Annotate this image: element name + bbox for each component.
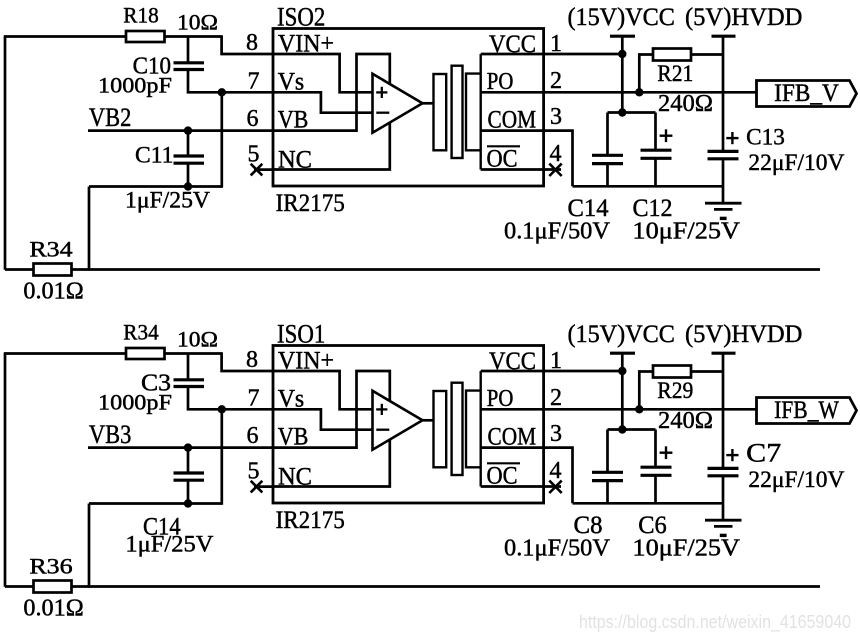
wire C11 bottom branch ISO2: [187, 163, 190, 186]
resistor R34 (10Ω input): [126, 348, 165, 359]
label 0.1μF/50V: [504, 536, 611, 562]
wire op-amp output ISO1: [423, 419, 435, 422]
svg-text:C7: C7: [746, 439, 781, 468]
svg-text:IR2175: IR2175: [276, 190, 345, 217]
wire R34 row left ISO1: [4, 352, 126, 355]
svg-text:1μF/25V: 1μF/25V: [125, 531, 213, 556]
power VCC rail ISO2: [610, 36, 635, 112]
isolation barrier bar ISO2: [452, 66, 463, 158]
label C7: [746, 439, 781, 468]
watermark: [579, 611, 851, 633]
wire pin 4 stub ISO1: [481, 485, 561, 488]
wire to pin 8 ISO1: [222, 352, 274, 371]
wire decoupling branch ISO2: [608, 111, 656, 114]
op-amp UISO2 triangle: [373, 74, 423, 133]
wire rail to shunt ISO1: [88, 504, 91, 588]
svg-text:IR2175: IR2175: [276, 507, 345, 534]
capacitor C8 (0.1μF/50V): [592, 472, 623, 480]
pin VIN+ label ISO1: [278, 348, 334, 375]
label (15V)VCC ISO2: [567, 4, 675, 31]
wire pin 2 row (PO) ISO1: [481, 408, 757, 411]
node VB3 junction ISO1: [184, 443, 192, 451]
svg-text:10Ω: 10Ω: [177, 10, 218, 35]
label C10: [133, 54, 171, 80]
label VB2: [89, 103, 131, 132]
label 1000pF: [98, 73, 172, 98]
label 10μF/25V: [632, 219, 740, 245]
svg-text:8: 8: [246, 347, 258, 373]
label R34: [29, 237, 72, 262]
wire to pin 8 ISO2: [222, 35, 274, 54]
wire C11 top branch ISO2: [187, 131, 190, 156]
svg-text:7: 7: [248, 69, 260, 95]
svg-text:4: 4: [550, 458, 562, 484]
wire C7 bottom ISO1: [722, 476, 725, 520]
pin 6 label ISO2: [247, 106, 259, 132]
wire C6 top ISO1: [654, 430, 657, 468]
wire C8 top ISO1: [606, 430, 609, 473]
svg-text:(15V)VCC: (15V)VCC: [567, 4, 675, 31]
capacitor C6 (10μF/25V): [641, 467, 672, 475]
wire R34 row right ISO1: [165, 352, 222, 355]
wire C14 top branch ISO1: [187, 448, 190, 473]
label R36: [29, 554, 72, 579]
pin 5 label ISO2: [248, 142, 260, 168]
wire NC stub ISO1: [254, 485, 274, 488]
svg-text:3: 3: [550, 421, 562, 447]
pin NC label ISO1: [278, 464, 312, 491]
label 10μF/25V: [632, 536, 740, 562]
pin Vs label ISO2: [278, 69, 305, 96]
svg-text:0.1μF/50V: 0.1μF/50V: [504, 219, 611, 245]
svg-text:VB2: VB2: [89, 103, 131, 132]
wire C14 bottom branch ISO1: [187, 480, 190, 503]
node R29 PO junction ISO1: [635, 405, 643, 413]
wire R29 right leg ISO1: [691, 370, 723, 373]
wire decoupling branch ISO1: [608, 428, 656, 431]
label R29: [657, 378, 693, 403]
label IR2175: [276, 507, 345, 534]
svg-text:7: 7: [248, 386, 260, 412]
label 240Ω: [658, 408, 713, 434]
wire pin 2 row (PO) ISO2: [481, 91, 757, 94]
label C6: [638, 512, 667, 539]
pin 1 label ISO2: [550, 31, 562, 57]
svg-text:0.01Ω: 0.01Ω: [23, 596, 83, 622]
wire C13 bottom ISO2: [722, 159, 725, 203]
wire Vs internal ISO1: [274, 409, 373, 429]
pin 1 label ISO1: [550, 348, 562, 374]
label 22μF/10V: [748, 467, 844, 492]
svg-text:1000pF: 1000pF: [98, 390, 172, 415]
ground ISO2: [705, 203, 742, 218]
svg-text:10Ω: 10Ω: [177, 327, 218, 352]
wire shunt row left ISO2: [5, 268, 34, 271]
pin VCC label ISO1: [489, 348, 536, 375]
svg-text:10μF/25V: 10μF/25V: [632, 536, 740, 562]
label R34: [123, 320, 158, 345]
label R21: [657, 61, 693, 86]
wire Vs stub ISO1: [222, 408, 274, 411]
power HVDD rail ISO1: [712, 353, 736, 468]
svg-text:R29: R29: [657, 378, 693, 403]
wire R18 row left ISO2: [4, 35, 126, 38]
wire C14 bottom ISO2: [606, 164, 609, 187]
isolation block plate B ISO2: [466, 74, 481, 151]
label C12: [633, 195, 673, 222]
svg-text:2: 2: [550, 68, 562, 94]
label C13: [746, 125, 785, 150]
label 0.01Ω: [23, 596, 83, 622]
wire C10 to Vs ISO2: [188, 70, 222, 93]
wire pin 1 row ISO1: [481, 370, 623, 373]
pin OC label ISO1: [487, 463, 521, 490]
wire pin 4 stub ISO2: [481, 168, 561, 171]
svg-text:2: 2: [550, 385, 562, 411]
wire VIN+ internal ISO2: [274, 54, 373, 92]
wire VB2 row ISO2: [88, 129, 274, 132]
capacitor C7 (22μF/10V): [708, 468, 739, 475]
node VB2 junction ISO2: [184, 126, 192, 134]
wire ground rail ISO2: [573, 185, 724, 188]
label R18: [123, 3, 158, 28]
isolation block plate B ISO1: [466, 391, 481, 468]
label (5V)HVDD ISO2: [685, 4, 803, 31]
wire C3 top branch ISO1: [187, 354, 190, 380]
node VCC pin1 ISO1: [618, 367, 626, 375]
svg-text:ISO2: ISO2: [277, 2, 325, 31]
svg-text:IFB_W: IFB_W: [774, 397, 839, 424]
svg-text:4: 4: [550, 141, 562, 167]
wire shunt row long ISO2: [72, 268, 821, 271]
wire shunt row long ISO1: [72, 585, 821, 588]
svg-text:1μF/25V: 1μF/25V: [125, 188, 210, 213]
node VCC caps ISO1: [618, 425, 626, 433]
wire NC internal ISO2: [274, 122, 390, 170]
pin VIN+ label ISO2: [278, 31, 334, 58]
wire Vs stub ISO2: [222, 91, 274, 94]
wire C14 top ISO2: [606, 113, 609, 156]
wire C10 top branch ISO2: [187, 37, 190, 63]
pin PO label ISO1: [487, 386, 514, 412]
node R21 PO junction ISO2: [635, 88, 643, 96]
wire pin 1 row ISO2: [481, 53, 623, 56]
wire VIN+ internal ISO1: [274, 371, 373, 409]
svg-text:ISO1: ISO1: [277, 319, 325, 348]
label 10Ω: [177, 327, 218, 352]
pin PO label ISO2: [487, 69, 514, 95]
no-connect X pin 5 ISO2: [251, 164, 263, 176]
label IR2175: [276, 190, 345, 217]
label C14: [568, 195, 609, 222]
pin VB label ISO1: [278, 424, 309, 451]
svg-text:5: 5: [248, 459, 260, 485]
output tag IFB_W: [757, 397, 857, 424]
label C14: [143, 513, 181, 540]
pin 3 label ISO1: [550, 421, 562, 447]
node C14 bottom junction ISO1: [184, 499, 192, 507]
svg-text:R34: R34: [123, 320, 158, 345]
pin VB label ISO2: [278, 107, 309, 134]
capacitor C6 polarity + ISO1: [660, 446, 673, 459]
svg-text:https://blog.csdn.net/weixin_4: https://blog.csdn.net/weixin_41659040: [579, 611, 851, 633]
IC pin column divider ISO2: [480, 54, 482, 170]
svg-text:R21: R21: [657, 61, 693, 86]
op-amp UISO1 triangle: [373, 391, 423, 450]
label 1μF/25V: [125, 188, 210, 213]
capacitor C11 (1μF/25V): [174, 156, 205, 163]
wire Vs internal ISO2: [274, 92, 373, 112]
label 10Ω: [177, 10, 218, 35]
wire NC internal ISO1: [274, 439, 390, 487]
wire C12 top ISO2: [654, 113, 657, 151]
wire VB internal ISO2: [274, 54, 390, 131]
svg-text:240Ω: 240Ω: [658, 91, 713, 117]
wire R21 right leg ISO2: [691, 53, 723, 56]
wire left bus ISO2: [4, 37, 7, 270]
wire Vs to shunt rail ISO2: [220, 92, 223, 188]
svg-text:(5V)HVDD: (5V)HVDD: [685, 4, 803, 31]
node Vs junction ISO2: [218, 88, 226, 96]
label 0.01Ω: [23, 279, 83, 305]
pin 8 label ISO2: [246, 30, 258, 56]
wire shunt row left ISO1: [5, 585, 34, 588]
svg-text:(5V)HVDD: (5V)HVDD: [685, 321, 803, 348]
wire pin 3 row (COM) ISO1: [481, 448, 573, 504]
svg-text:8: 8: [246, 30, 258, 56]
wire C8 bottom ISO1: [606, 481, 609, 504]
wire VB internal ISO1: [274, 371, 390, 448]
capacitor C7 polarity + ISO1: [726, 449, 738, 461]
isolation block plate A ISO1: [434, 391, 447, 467]
pin VCC label ISO2: [489, 31, 536, 58]
pin OC label ISO2: [487, 146, 521, 173]
wire left bus ISO1: [4, 354, 7, 587]
label (15V)VCC ISO1: [567, 321, 675, 348]
wire R29 left leg ISO1: [639, 372, 653, 410]
svg-text:22μF/10V: 22μF/10V: [748, 467, 844, 492]
svg-text:R34: R34: [29, 237, 72, 262]
op-amp minus input ISO1: [376, 429, 389, 431]
capacitor C10 (1000pF): [174, 63, 205, 70]
wire left rail ISO1: [89, 502, 222, 505]
pin 2 label ISO1: [550, 385, 562, 411]
svg-text:(15V)VCC: (15V)VCC: [567, 321, 675, 348]
power VCC rail ISO1: [610, 353, 635, 429]
capacitor C13 (22μF/10V): [708, 151, 739, 158]
label ISO1: [277, 319, 325, 348]
wire C6 bottom ISO1: [654, 475, 657, 503]
op-amp IC ISO1 box: [273, 346, 544, 504]
output tag IFB_V: [757, 80, 857, 107]
node Vs junction ISO1: [218, 405, 226, 413]
no-connect X pin 4 ISO2: [549, 164, 561, 176]
op-amp plus input ISO1: [376, 404, 387, 415]
pin 4 label ISO1: [550, 458, 562, 484]
wire pin 3 row (COM) ISO2: [481, 131, 573, 187]
wire C3 to Vs ISO1: [188, 387, 222, 410]
pin COM label ISO1: [488, 424, 537, 451]
capacitor C12 (10μF/25V): [641, 150, 672, 158]
label C11: [135, 143, 173, 168]
no-connect X pin 5 ISO1: [251, 481, 263, 493]
svg-text:1000pF: 1000pF: [98, 73, 172, 98]
node VCC pin1 ISO2: [618, 50, 626, 58]
label 1000pF: [98, 390, 172, 415]
pin 3 label ISO2: [550, 104, 562, 130]
svg-text:3: 3: [550, 104, 562, 130]
resistor R36 (0.01Ω shunt): [34, 581, 72, 593]
pin 4 label ISO2: [550, 141, 562, 167]
label C8: [574, 512, 603, 539]
wire NC stub ISO2: [254, 168, 274, 171]
svg-text:240Ω: 240Ω: [658, 408, 713, 434]
label ISO2: [277, 2, 325, 31]
node C11 bottom junction ISO2: [184, 182, 192, 190]
capacitor C14 (1μF/25V): [174, 473, 205, 480]
capacitor C3 (1000pF): [174, 380, 205, 387]
wire VB3 row ISO1: [88, 446, 274, 449]
wire R21 left leg ISO2: [639, 55, 653, 93]
svg-text:R18: R18: [123, 3, 158, 28]
label 1μF/25V: [125, 531, 213, 556]
svg-text:10μF/25V: 10μF/25V: [632, 219, 740, 245]
svg-text:0.01Ω: 0.01Ω: [23, 279, 83, 305]
resistor R34 (0.01Ω shunt): [34, 264, 72, 276]
svg-text:5: 5: [248, 142, 260, 168]
pin NC label ISO2: [278, 147, 312, 174]
pin 8 label ISO1: [246, 347, 258, 373]
capacitor C14 (0.1μF/50V): [592, 155, 623, 163]
svg-text:VB3: VB3: [89, 420, 131, 449]
IC pin column divider ISO1: [480, 371, 482, 487]
pin COM label ISO2: [488, 107, 537, 134]
pin Vs label ISO1: [278, 386, 305, 413]
wire rail to shunt ISO2: [88, 187, 91, 271]
pin 2 label ISO2: [550, 68, 562, 94]
svg-text:IFB_V: IFB_V: [774, 80, 839, 107]
label 0.1μF/50V: [504, 219, 611, 245]
label VB3: [89, 420, 131, 449]
op-amp minus input ISO2: [376, 112, 389, 114]
isolation barrier bar ISO1: [452, 383, 463, 475]
wire R18 row right ISO2: [165, 35, 222, 38]
svg-text:0.1μF/50V: 0.1μF/50V: [504, 536, 611, 562]
capacitor C13 polarity + ISO2: [726, 132, 738, 144]
pin 6 label ISO1: [247, 423, 259, 449]
pin 7 label ISO1: [248, 386, 260, 412]
label 22μF/10V: [748, 150, 844, 175]
wire left rail ISO2: [89, 185, 222, 188]
capacitor C12 polarity + ISO2: [660, 129, 673, 142]
no-connect X pin 4 ISO1: [549, 481, 561, 493]
power HVDD rail ISO2: [712, 36, 736, 151]
resistor R29 (240Ω): [653, 366, 691, 378]
svg-text:6: 6: [247, 423, 259, 449]
label 240Ω: [658, 91, 713, 117]
isolation block plate A ISO2: [434, 74, 447, 150]
wire op-amp output ISO2: [423, 102, 435, 105]
label C3: [141, 371, 171, 397]
wire C12 bottom ISO2: [654, 158, 657, 186]
svg-text:22μF/10V: 22μF/10V: [748, 150, 844, 175]
svg-text:C11: C11: [135, 143, 173, 168]
op-amp plus input ISO2: [376, 87, 387, 98]
pin 5 label ISO1: [248, 459, 260, 485]
op-amp IC ISO2 box: [273, 29, 544, 187]
label (5V)HVDD ISO1: [685, 321, 803, 348]
svg-text:C13: C13: [746, 125, 785, 150]
resistor R18 (10Ω input): [126, 31, 165, 42]
wire Vs to shunt rail ISO1: [220, 409, 223, 505]
wire ground rail ISO1: [573, 502, 724, 505]
ground ISO1: [705, 520, 742, 535]
resistor R21 (240Ω): [653, 49, 691, 61]
svg-text:R36: R36: [29, 554, 72, 579]
pin 7 label ISO2: [248, 69, 260, 95]
svg-text:6: 6: [247, 106, 259, 132]
node VCC caps ISO2: [618, 108, 626, 116]
